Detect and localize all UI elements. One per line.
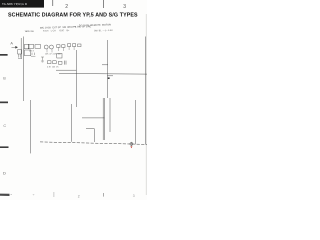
cap C2 <box>65 61 66 65</box>
margin bar B/C <box>0 102 8 104</box>
svg-text:B: B <box>3 77 6 81</box>
transistor Q2 <box>49 45 53 49</box>
svg-text:4.7K 103 1K: 4.7K 103 1K <box>47 66 59 68</box>
wire: left lower vertical <box>29 100 31 153</box>
switch S1 box <box>24 44 29 48</box>
wire: mid vertical bus <box>106 40 108 98</box>
svg-text:C: C <box>3 124 6 128</box>
column tick 2-3 <box>102 0 105 8</box>
junction blob <box>108 77 110 79</box>
resistor R5 <box>67 44 70 47</box>
resistor R10 <box>58 61 62 64</box>
wire: center vertical (record bus) <box>75 50 77 107</box>
transistor Q1 <box>44 45 48 49</box>
svg-text:TA-N86 YP,R,G D: TA-N86 YP,R,G D <box>2 2 28 6</box>
resistor R6 <box>72 44 75 47</box>
resistor R7 <box>78 44 81 47</box>
switch S2 box <box>57 53 62 58</box>
resistor R1 <box>28 45 34 49</box>
bottom tick b <box>102 193 105 197</box>
svg-text:+·: +· <box>33 192 36 196</box>
margin bar C/D <box>0 146 9 148</box>
svg-text:3: 3 <box>123 4 126 10</box>
resistor R4 <box>62 45 65 48</box>
header group <box>0 0 147 198</box>
wire: stubs near mid bus <box>102 65 113 76</box>
wire: left vertical bus <box>21 37 23 102</box>
connector J1 pins <box>18 54 22 58</box>
margin bar A/B <box>0 54 8 56</box>
svg-text:A: A <box>10 42 13 46</box>
wire: far right vertical <box>145 37 147 145</box>
resistor R9 <box>53 61 57 64</box>
schematic group <box>12 23 148 153</box>
cap C1 marks <box>31 53 35 57</box>
svg-text:3: 3 <box>133 194 135 198</box>
paper background <box>0 0 147 200</box>
wire: horizontal at C row <box>82 117 104 119</box>
resistor R8 <box>47 61 51 64</box>
wire: right vertical to jack row <box>134 100 136 144</box>
svg-text:10K 47 2.2K 100: 10K 47 2.2K 100 <box>45 54 61 56</box>
resistor R2 <box>35 45 41 49</box>
caps cluster B left <box>41 57 44 62</box>
column tick 1-2 <box>51 0 54 6</box>
svg-text:SCHEMATIC DIAGRAM FOR YP,5 AND: SCHEMATIC DIAGRAM FOR YP,5 AND S/G TYPES <box>8 12 138 18</box>
svg-text:TAPE SW: TAPE SW <box>25 30 34 33</box>
page right edge line <box>145 14 148 195</box>
boundary crosshair <box>129 142 133 146</box>
wire drops from top row <box>47 46 74 52</box>
board boundary dashed line <box>40 142 147 145</box>
connector J1 block <box>18 50 22 54</box>
input arrow A <box>12 46 18 48</box>
wire: long horizontal supply rail <box>59 73 147 76</box>
svg-text:D: D <box>3 171 6 176</box>
wire: center lower vertical <box>70 104 72 142</box>
bottom tick a <box>53 192 56 197</box>
wire: upper horizontal to center <box>56 69 76 71</box>
wire: horizontal stub lower <box>86 129 94 142</box>
bottom-left corner tab of next page <box>0 194 10 196</box>
switch S1 lower box <box>24 50 30 56</box>
wire: mid vertical right of bus <box>109 98 111 132</box>
resistor R3 <box>57 45 60 48</box>
svg-text:2: 2 <box>78 194 80 198</box>
svg-text:2: 2 <box>65 4 68 10</box>
ground symbol below crosshair (red) <box>130 146 132 148</box>
model label black tab <box>0 0 44 8</box>
wire: mid double bus left <box>103 98 104 140</box>
